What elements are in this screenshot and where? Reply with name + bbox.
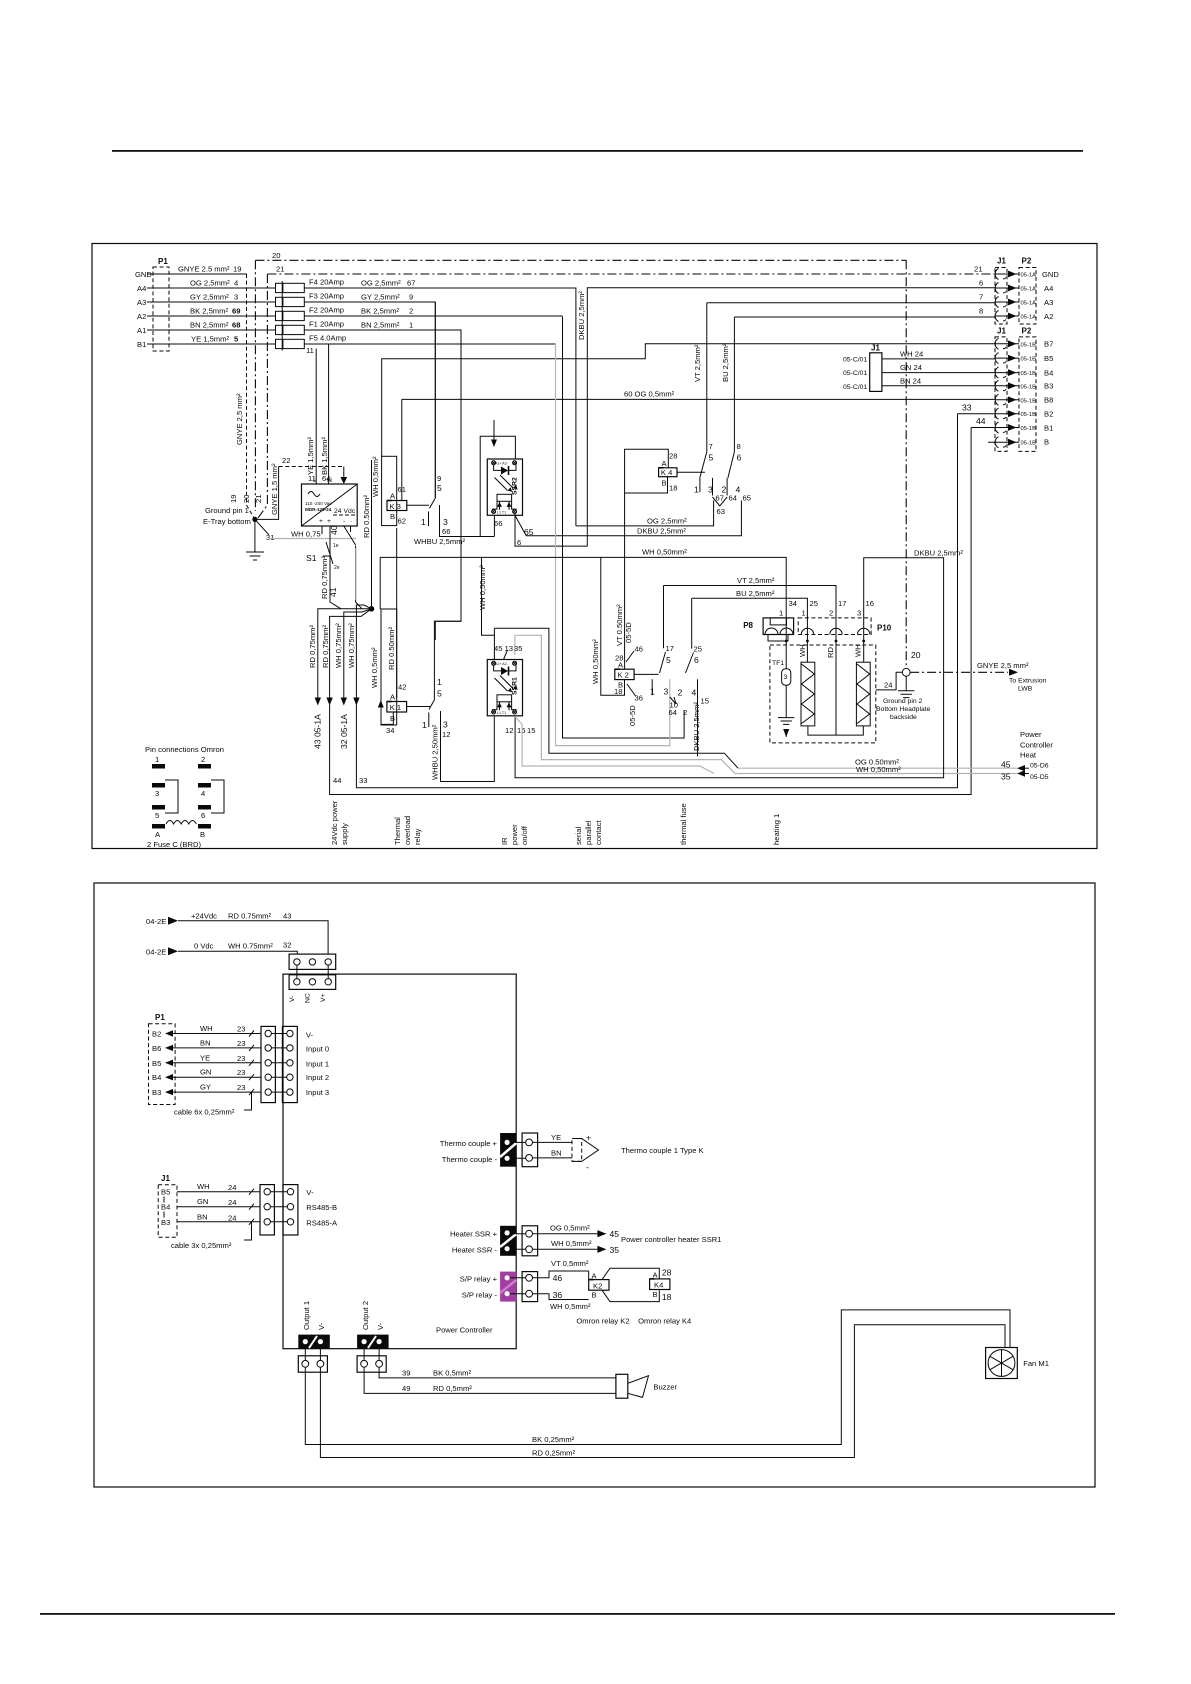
D2: omron relay K2 (589, 1280, 609, 1291)
svg-text:8: 8 (979, 307, 983, 316)
svg-text:49: 49 (402, 1384, 410, 1393)
svg-text:F4 20Amp: F4 20Amp (309, 278, 344, 287)
svg-text:20: 20 (272, 251, 280, 260)
svg-text:-: - (586, 1162, 589, 1172)
svg-text:L: L (313, 477, 317, 484)
svg-text:19: 19 (233, 265, 241, 274)
svg-text:BU 2,5mm²: BU 2,5mm² (721, 343, 730, 382)
svg-text:B3: B3 (161, 1218, 170, 1227)
wire K4 loop (625, 449, 669, 493)
svg-text:B: B (662, 479, 667, 488)
svg-text:1: 1 (155, 755, 159, 764)
svg-text:7: 7 (709, 442, 713, 451)
D2: S/P relay terminal purple (500, 1272, 516, 1302)
wire P8-1 to TF1 (785, 641, 787, 669)
svg-text:43 05-1A: 43 05-1A (313, 714, 323, 749)
svg-text:P1: P1 (155, 1013, 165, 1022)
svg-text:RD 0,5mm²: RD 0,5mm² (433, 1384, 472, 1393)
svg-text:YE: YE (200, 1053, 210, 1062)
svg-text:WH 0,5mm²: WH 0,5mm² (551, 1239, 592, 1248)
svg-text:16: 16 (866, 599, 874, 608)
fuse F1 (276, 325, 283, 334)
svg-text:V-: V- (306, 1188, 314, 1197)
svg-text:24: 24 (228, 1198, 236, 1207)
wire 45 gray to arrow (738, 767, 1017, 769)
svg-text:A1+ A2-: A1+ A2- (495, 662, 509, 666)
svg-text:Heater SSR +: Heater SSR + (450, 1230, 498, 1239)
svg-text:GN: GN (197, 1197, 208, 1206)
svg-text:33: 33 (359, 776, 367, 785)
svg-text:20: 20 (242, 495, 251, 503)
svg-text:45: 45 (1001, 760, 1011, 770)
K1 frame (381, 609, 397, 725)
wire K1 B loop (382, 712, 394, 724)
wire 22 GNYE 1.5 (255, 467, 279, 520)
K2 contact 25 (691, 598, 693, 648)
D2: heater SSR terminal black (500, 1226, 516, 1256)
bus 20 dash-dot (255, 259, 906, 261)
svg-text:67: 67 (407, 279, 415, 288)
svg-text:2e: 2e (334, 565, 340, 571)
svg-text:BN: BN (197, 1212, 208, 1221)
svg-text:4: 4 (692, 688, 697, 698)
svg-text:B4: B4 (161, 1203, 170, 1212)
svg-text:WH 24: WH 24 (900, 350, 923, 359)
svg-text:OG 2,5mm²: OG 2,5mm² (361, 279, 401, 288)
svg-text:V-: V- (289, 996, 296, 1002)
svg-text:6: 6 (201, 811, 205, 820)
wire K4 coil right (677, 471, 705, 473)
svg-text:3: 3 (155, 789, 159, 798)
svg-text:23: 23 (237, 1025, 245, 1034)
svg-text:66: 66 (442, 527, 450, 536)
svg-text:K 4: K 4 (661, 468, 672, 477)
svg-text:heating 1: heating 1 (772, 814, 781, 845)
D2: thermo couple symbol (572, 1139, 582, 1162)
svg-text:28: 28 (615, 654, 623, 663)
svg-text:NC: NC (305, 993, 312, 1003)
svg-text:25: 25 (810, 599, 818, 608)
svg-text:05-1A: 05-1A (1021, 273, 1037, 279)
svg-text:S/P relay +: S/P relay + (460, 1275, 498, 1284)
svg-text:2: 2 (683, 708, 687, 717)
svg-text:B: B (390, 512, 395, 521)
svg-text:DKBU 2,5mm²: DKBU 2,5mm² (637, 527, 686, 536)
svg-text:B4: B4 (152, 1073, 161, 1082)
svg-text:1: 1 (650, 687, 655, 697)
svg-text:contact: contact (594, 820, 603, 845)
J1/P2 row B2 (958, 413, 1020, 415)
svg-text:05-1B: 05-1B (1021, 342, 1037, 348)
K1 contact (434, 330, 461, 700)
svg-text:11: 11 (306, 346, 314, 355)
svg-text:64: 64 (729, 494, 737, 503)
svg-text:A3: A3 (137, 298, 146, 307)
D2: power controller box (283, 974, 516, 1349)
svg-text:cable 3x 0,25mm²: cable 3x 0,25mm² (171, 1241, 232, 1250)
svg-text:+: + (319, 518, 323, 525)
svg-text:1: 1 (409, 321, 413, 330)
svg-text:18: 18 (614, 687, 622, 696)
J1/P2 row B5 (995, 357, 1019, 359)
svg-text:J1: J1 (997, 257, 1006, 266)
svg-text:110 -240 Vac: 110 -240 Vac (305, 501, 332, 506)
svg-text:RD 0.50mm²: RD 0.50mm² (387, 626, 396, 670)
K3 contact (434, 302, 436, 498)
svg-text:WH 0,50mm²: WH 0,50mm² (642, 548, 687, 557)
svg-text:RD 0,75mm²: RD 0,75mm² (308, 624, 317, 668)
K2 contact 17 (663, 586, 665, 649)
wire BN 1 row (304, 330, 461, 640)
svg-text:Thermo couple -: Thermo couple - (442, 1155, 498, 1164)
svg-text:44: 44 (333, 776, 341, 785)
svg-text:36: 36 (553, 1290, 563, 1300)
relay K3 (387, 501, 407, 511)
fuse F5 (276, 339, 283, 348)
wire BK 64 to supply (328, 344, 330, 484)
svg-text:BK 2,5mm²: BK 2,5mm² (190, 307, 228, 316)
svg-text:8: 8 (737, 442, 741, 451)
svg-text:15: 15 (701, 697, 709, 706)
svg-text:serial: serial (574, 827, 583, 845)
K4 contact 8/6 (733, 317, 735, 452)
relay K2 (615, 669, 634, 679)
svg-text:3: 3 (857, 609, 861, 618)
wire 33 (356, 414, 957, 788)
svg-text:9: 9 (409, 293, 413, 302)
svg-text:B2: B2 (1044, 410, 1053, 419)
connector P2 (B-group) (1019, 337, 1036, 452)
wire BK 2 row (304, 315, 562, 317)
relay K4 (659, 468, 677, 477)
wire K2 A feed VT0.50 (624, 493, 626, 669)
svg-text:YE 1,5mm²: YE 1,5mm² (191, 335, 229, 344)
svg-text:6: 6 (737, 453, 742, 463)
wire K3-A up (60) (401, 490, 403, 500)
svg-text:3: 3 (443, 720, 448, 730)
D2: buzzer (616, 1374, 628, 1398)
D2: terminal strip upper (289, 954, 336, 969)
svg-text:E-Tray bottom: E-Tray bottom (203, 517, 251, 526)
svg-text:45: 45 (494, 644, 502, 653)
svg-text:OG 2,5mm²: OG 2,5mm² (190, 279, 230, 288)
svg-text:23: 23 (237, 1068, 245, 1077)
svg-text:DKBU 2,5mm²: DKBU 2,5mm² (577, 291, 586, 340)
supply arrow input 22 (343, 467, 345, 479)
svg-text:Buzzer: Buzzer (653, 1383, 677, 1392)
svg-text:on/off: on/off (520, 825, 529, 845)
J1/P2 row B (988, 441, 1019, 443)
svg-text:1: 1 (422, 720, 427, 730)
junction node (369, 606, 375, 612)
svg-text:WH 0,50mm²: WH 0,50mm² (856, 765, 901, 774)
J1/P2 row GND (995, 273, 1019, 275)
svg-text:WH: WH (200, 1024, 213, 1033)
wire YE 11 to supply (315, 349, 317, 484)
svg-text:21: 21 (974, 265, 982, 274)
top rule (112, 150, 1083, 152)
svg-text:65: 65 (524, 527, 534, 537)
svg-text:Omron relay K2: Omron relay K2 (576, 1317, 629, 1326)
D2: input terminal col1 (261, 1026, 275, 1102)
svg-text:TF1: TF1 (772, 660, 784, 667)
svg-text:36: 36 (635, 694, 643, 703)
svg-text:P1: P1 (158, 257, 168, 266)
svg-text:4: 4 (234, 279, 238, 288)
svg-text:Power Controller: Power Controller (436, 1326, 493, 1335)
wire contact4 DKBU down (697, 679, 699, 756)
svg-text:46: 46 (553, 1273, 563, 1283)
svg-text:1: 1 (779, 609, 783, 618)
svg-text:B5: B5 (161, 1188, 170, 1197)
D2: wire RD0.25 to fan (320, 1325, 1005, 1458)
svg-text:1: 1 (437, 677, 442, 687)
svg-text:A1: A1 (137, 326, 146, 335)
fuse F2 (276, 311, 283, 320)
wire SSR2 T1 65 (515, 501, 742, 536)
svg-text:6: 6 (517, 538, 521, 547)
svg-text:WH: WH (197, 1182, 210, 1191)
svg-text:21: 21 (254, 495, 263, 503)
svg-text:P2: P2 (1022, 257, 1032, 266)
svg-text:05-D6: 05-D6 (1030, 763, 1049, 770)
svg-text:F3 20Amp: F3 20Amp (309, 292, 344, 301)
TF ground (778, 718, 794, 725)
svg-text:05-C/01: 05-C/01 (843, 384, 867, 391)
svg-text:GND: GND (1042, 270, 1059, 279)
svg-text:A4: A4 (137, 284, 146, 293)
svg-text:6: 6 (979, 279, 983, 288)
svg-text:5: 5 (155, 811, 159, 820)
svg-text:V-: V- (317, 1322, 326, 1330)
wire GNYE 19 vertical (247, 274, 255, 519)
svg-text:K 2: K 2 (618, 671, 629, 680)
diagram 1 outer border (92, 244, 1097, 849)
svg-text:VT 2,5mm²: VT 2,5mm² (693, 344, 702, 382)
wire B1 row (YE) (147, 343, 276, 345)
svg-text:B3: B3 (152, 1088, 161, 1097)
svg-text:05-5D: 05-5D (624, 622, 633, 643)
svg-text:F2 20Amp: F2 20Amp (309, 306, 344, 315)
svg-text:YE 1,5mm²: YE 1,5mm² (306, 437, 315, 475)
svg-text:RD 0,75mm²: RD 0,75mm² (321, 624, 330, 668)
wire GY 9 row (304, 302, 435, 498)
svg-text:WH 0,5mm²: WH 0,5mm² (371, 456, 380, 497)
J1/P2 row B7 (995, 343, 1019, 345)
wire RD0.50 K1 feed (396, 528, 398, 698)
heater bottom join (808, 726, 863, 735)
connector P10 (dashed) (798, 618, 871, 635)
svg-text:power: power (510, 824, 519, 845)
svg-text:RD 0,25mm²: RD 0,25mm² (532, 1448, 576, 1457)
D2: K2-K4 link (602, 1268, 659, 1279)
svg-text:B3: B3 (1044, 382, 1053, 391)
svg-text:4: 4 (201, 789, 205, 798)
contact hooks 10 64 2 (670, 697, 676, 704)
svg-text:A1+ A2-: A1+ A2- (495, 462, 509, 466)
svg-text:Bottom Headplate: Bottom Headplate (876, 706, 931, 713)
svg-text:34: 34 (789, 599, 797, 608)
svg-text:46: 46 (635, 645, 643, 654)
wire OG2.5 to K4 contact (576, 501, 714, 526)
J1/P2 row B1 (971, 427, 1019, 429)
svg-text:GN 24: GN 24 (900, 363, 922, 372)
svg-text:BK 0,25mm²: BK 0,25mm² (532, 1435, 575, 1444)
wire 60 OG 0.5 to B8 (402, 399, 995, 490)
svg-text:0 Vdc: 0 Vdc (194, 942, 214, 951)
svg-text:BK 1,5mm²: BK 1,5mm² (320, 437, 329, 475)
D2: fan M1 (986, 1348, 1018, 1379)
svg-text:1: 1 (421, 517, 426, 527)
svg-text:23: 23 (237, 1039, 245, 1048)
svg-text:24: 24 (884, 681, 892, 690)
D2: omron relay K4 (650, 1279, 670, 1290)
svg-text:S1: S1 (306, 553, 317, 563)
wire 21 vertical (257, 274, 267, 519)
svg-text:21: 21 (276, 265, 284, 274)
svg-text:24: 24 (228, 1183, 236, 1192)
svg-text:overload: overload (403, 816, 412, 845)
svg-text:OG 0,5mm²: OG 0,5mm² (550, 1224, 590, 1233)
wire OG 67 row (304, 288, 576, 526)
wire WH 0.50 long to P8 (380, 557, 786, 641)
wire WH0.5 B7 feed (382, 344, 995, 457)
svg-text:Input 0: Input 0 (306, 1045, 329, 1054)
wire 20 vertical (254, 260, 256, 511)
svg-text:RD 0.50mm²: RD 0.50mm² (362, 494, 371, 538)
svg-text:Power: Power (1020, 730, 1042, 739)
wire 44 (330, 428, 972, 795)
svg-text:16: 16 (517, 726, 525, 735)
svg-text:K 1: K 1 (390, 703, 401, 712)
svg-text:RS485-A: RS485-A (306, 1218, 338, 1227)
svg-text:44: 44 (976, 416, 986, 426)
D2: P1 wires (165, 1030, 173, 1036)
svg-text:GNYE 1,5 mm²: GNYE 1,5 mm² (270, 463, 279, 515)
svg-text:RD 0.75mm²: RD 0.75mm² (228, 911, 272, 920)
svg-text:Heat: Heat (1020, 751, 1037, 760)
svg-text:VT 0,5mm²: VT 0,5mm² (551, 1259, 589, 1268)
svg-text:41: 41 (328, 587, 338, 597)
svg-text:Output 2: Output 2 (361, 1301, 370, 1330)
svg-text:GNYE 2,5 mm²: GNYE 2,5 mm² (235, 393, 244, 445)
D2: terminal strip lower (289, 975, 336, 990)
svg-text:RD: RD (826, 647, 835, 658)
svg-text:B1: B1 (1044, 423, 1053, 432)
diagram 2 outer border (94, 883, 1095, 1487)
K3 frame (thermal overload) (382, 456, 397, 525)
svg-text:04-2E: 04-2E (146, 948, 166, 957)
svg-text:05-1A: 05-1A (1021, 287, 1037, 293)
fuse bank vertical line (281, 281, 283, 351)
svg-text:B: B (653, 1290, 658, 1299)
svg-text:MDR-120-24: MDR-120-24 (305, 507, 332, 512)
svg-text:5: 5 (666, 655, 671, 665)
svg-text:P2: P2 (1022, 327, 1032, 336)
svg-text:32 05-1A: 32 05-1A (339, 714, 349, 749)
svg-text:P10: P10 (877, 624, 892, 633)
svg-text:1: 1 (802, 609, 806, 618)
svg-text:RS485-B: RS485-B (306, 1203, 337, 1212)
svg-text:BK 2,5mm²: BK 2,5mm² (361, 307, 399, 316)
svg-text:Input 1: Input 1 (306, 1060, 329, 1069)
svg-text:GY 2,5mm²: GY 2,5mm² (361, 293, 400, 302)
svg-text:B8: B8 (1044, 396, 1053, 405)
D2: heater SSR wires (533, 1233, 598, 1235)
J1/P2 row B8 (995, 399, 1019, 401)
fuse F4 (276, 283, 283, 292)
svg-text:05-5D: 05-5D (628, 705, 637, 726)
svg-text:2: 2 (678, 688, 683, 698)
D2: thermo couple white terminal (522, 1133, 538, 1167)
svg-text:3: 3 (443, 517, 448, 527)
ground symbol 1 (246, 519, 264, 560)
stub 36 05-5D (627, 684, 636, 696)
svg-text:WH 0,50mm²: WH 0,50mm² (478, 565, 487, 610)
svg-text:Thermo couple 1 Type K: Thermo couple 1 Type K (621, 1146, 704, 1155)
J1/P2 row A4 (995, 287, 1019, 289)
svg-text:+24Vdc: +24Vdc (191, 911, 217, 920)
wire YE5 row to contact3 (304, 343, 555, 345)
svg-text:K4: K4 (654, 1281, 663, 1290)
svg-text:Pin connections Omron: Pin connections Omron (145, 745, 224, 754)
power supply box (302, 484, 358, 526)
svg-text:Input 2: Input 2 (306, 1073, 329, 1082)
svg-text:SSR2: SSR2 (512, 477, 519, 495)
svg-text:67: 67 (716, 494, 724, 503)
svg-text:1: 1 (694, 485, 699, 495)
svg-text:05-C/01: 05-C/01 (843, 357, 867, 364)
connector J1 (top right, A-group) (995, 268, 1007, 325)
svg-text:BN 24: BN 24 (900, 376, 921, 385)
svg-text:13: 13 (505, 644, 513, 653)
svg-text:23: 23 (237, 1083, 245, 1092)
wire RD supply to node (356, 546, 362, 609)
svg-text:backside: backside (890, 714, 917, 721)
svg-text:parallel: parallel (584, 820, 593, 845)
svg-text:A3: A3 (1044, 298, 1053, 307)
svg-text:B1: B1 (137, 340, 146, 349)
svg-text:thermal fuse: thermal fuse (679, 803, 688, 845)
D2: RS terminal col1 (260, 1185, 274, 1235)
svg-text:BN: BN (200, 1038, 211, 1047)
svg-text:WH 0,75mm²: WH 0,75mm² (334, 623, 343, 668)
svg-text:B: B (1044, 438, 1049, 447)
svg-text:WH 0,5mm²: WH 0,5mm² (370, 647, 379, 688)
J1/P2 row A2 (995, 315, 1019, 317)
svg-text:Heater SSR -: Heater SSR - (452, 1246, 498, 1255)
svg-text:66: 66 (494, 519, 502, 528)
bottom rule (40, 1613, 1115, 1615)
svg-text:05-1A: 05-1A (1021, 315, 1037, 321)
SSR1 (487, 660, 522, 716)
svg-text:5: 5 (437, 689, 442, 699)
connector P1 (dashed box) (153, 267, 169, 351)
svg-text:35: 35 (514, 644, 522, 653)
wire 24 to ground pin 2 (876, 672, 903, 690)
svg-text:62: 62 (398, 517, 406, 526)
67 64 65 63 labels (712, 478, 714, 496)
svg-text:5: 5 (437, 483, 442, 493)
ground symbol 2 (898, 676, 914, 697)
svg-text:2: 2 (409, 307, 413, 316)
D2: output1 terminal black (298, 1335, 330, 1349)
svg-text:WH 0,75: WH 0,75 (291, 530, 321, 539)
svg-text:9: 9 (437, 474, 441, 483)
svg-text:VT 2,5mm²: VT 2,5mm² (737, 576, 775, 585)
svg-text:A2: A2 (1044, 312, 1053, 321)
connector J1 mid (05-C/01) (870, 353, 882, 392)
